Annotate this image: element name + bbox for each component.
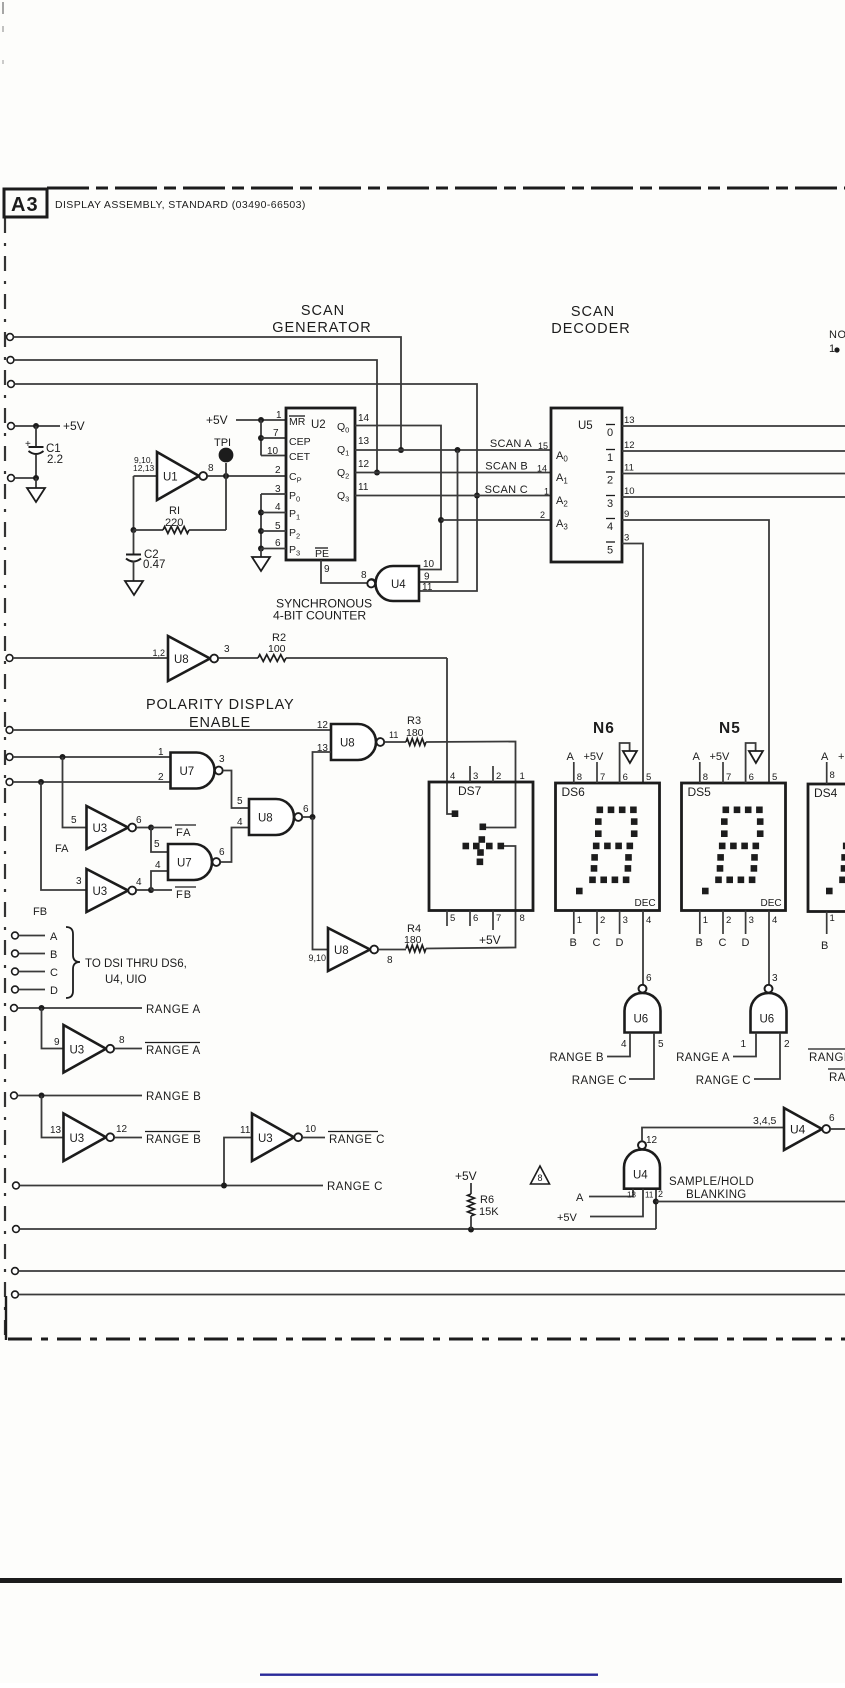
svg-text:+5V: +5V	[63, 419, 85, 433]
svg-text:4: 4	[772, 915, 777, 926]
svg-text:DS4: DS4	[814, 786, 838, 800]
svg-text:DEC: DEC	[761, 898, 782, 909]
svg-text:6: 6	[275, 538, 281, 549]
svg-text:5: 5	[607, 545, 613, 557]
svg-text:5: 5	[646, 772, 651, 783]
svg-text:1: 1	[158, 747, 164, 758]
svg-text:7: 7	[273, 428, 279, 439]
svg-text:RA: RA	[829, 1072, 845, 1084]
svg-text:2: 2	[658, 1189, 663, 1199]
svg-text:8: 8	[703, 772, 708, 783]
svg-text:8: 8	[537, 1173, 542, 1183]
svg-text:FB: FB	[33, 906, 47, 918]
svg-text:13: 13	[627, 1191, 636, 1200]
svg-text:1,2: 1,2	[152, 648, 165, 658]
svg-text:5: 5	[71, 815, 77, 826]
svg-text:GENERATOR: GENERATOR	[272, 320, 372, 336]
svg-text:3: 3	[749, 915, 754, 926]
svg-text:2: 2	[726, 915, 731, 926]
svg-text:0.47: 0.47	[143, 559, 165, 571]
svg-text:4: 4	[237, 817, 243, 828]
svg-text:13: 13	[358, 436, 370, 447]
svg-text:2.2: 2.2	[47, 454, 63, 466]
svg-text:3: 3	[772, 973, 778, 984]
svg-text:U7: U7	[180, 766, 195, 778]
svg-text:1: 1	[520, 771, 525, 782]
svg-text:9: 9	[624, 509, 629, 520]
svg-text:2: 2	[275, 465, 281, 476]
svg-text:12: 12	[358, 459, 370, 470]
svg-text:PE: PE	[315, 548, 329, 560]
svg-text:3,4,5: 3,4,5	[753, 1115, 777, 1127]
svg-text:SCAN B: SCAN B	[485, 461, 528, 473]
svg-text:SCAN: SCAN	[571, 304, 615, 320]
svg-text:ENABLE: ENABLE	[189, 715, 251, 731]
svg-text:U3: U3	[93, 823, 108, 835]
svg-text:1: 1	[577, 915, 582, 926]
svg-text:RANGE B: RANGE B	[146, 1134, 201, 1146]
svg-text:6: 6	[473, 913, 478, 924]
svg-text:180: 180	[404, 934, 422, 946]
svg-text:DISPLAY ASSEMBLY, STANDARD (03: DISPLAY ASSEMBLY, STANDARD (03490-66503)	[55, 199, 306, 211]
svg-text:+5V: +5V	[557, 1212, 578, 1224]
svg-text:14: 14	[537, 464, 547, 474]
svg-text:RANGE C: RANGE C	[329, 1134, 385, 1146]
svg-text:12: 12	[624, 440, 635, 451]
svg-text:TPI: TPI	[214, 437, 231, 449]
svg-text:13: 13	[50, 1125, 62, 1136]
svg-text:+: +	[25, 439, 31, 450]
svg-text:U3: U3	[93, 886, 108, 898]
svg-text:8: 8	[830, 770, 835, 781]
svg-text:SAMPLE/HOLD: SAMPLE/HOLD	[669, 1176, 754, 1188]
svg-text:RANGE A: RANGE A	[676, 1052, 730, 1064]
svg-text:RANGE: RANGE	[809, 1052, 845, 1064]
svg-text:1: 1	[276, 410, 282, 421]
svg-text:8: 8	[208, 463, 214, 474]
svg-text:6: 6	[646, 973, 652, 984]
svg-text:2: 2	[784, 1039, 790, 1050]
svg-text:8: 8	[387, 955, 393, 966]
svg-text:1: 1	[544, 487, 549, 497]
svg-text:12,13: 12,13	[133, 463, 155, 473]
svg-text:U4: U4	[633, 1170, 648, 1182]
svg-text:+5V: +5V	[584, 751, 605, 763]
svg-text:N6: N6	[593, 720, 615, 737]
svg-text:RANGE A: RANGE A	[146, 1045, 201, 1057]
svg-text:6: 6	[219, 847, 225, 858]
svg-text:11: 11	[358, 482, 369, 493]
svg-text:1: 1	[740, 1039, 746, 1050]
svg-text:U6: U6	[634, 1014, 649, 1026]
svg-text:12: 12	[116, 1124, 128, 1135]
svg-text:4: 4	[621, 1039, 627, 1050]
svg-text:6: 6	[749, 772, 754, 783]
svg-text:11: 11	[389, 730, 398, 740]
svg-text:RI: RI	[169, 505, 180, 517]
svg-text:11: 11	[422, 582, 433, 593]
svg-text:14: 14	[358, 413, 370, 424]
svg-text:3: 3	[219, 754, 225, 765]
svg-text:+: +	[838, 751, 844, 763]
svg-text:R6: R6	[480, 1194, 494, 1206]
svg-text:RANGE C: RANGE C	[327, 1181, 383, 1193]
svg-text:POLARITY DISPLAY: POLARITY DISPLAY	[146, 697, 294, 713]
svg-text:MR: MR	[289, 416, 306, 428]
svg-text:C: C	[593, 937, 601, 949]
svg-text:6: 6	[829, 1113, 835, 1124]
svg-text:FA: FA	[176, 827, 191, 839]
svg-text:5: 5	[450, 913, 455, 924]
svg-text:CET: CET	[289, 451, 311, 463]
svg-text:B: B	[821, 940, 828, 952]
svg-text:1: 1	[830, 913, 835, 924]
svg-text:A: A	[567, 751, 575, 763]
svg-text:3: 3	[76, 876, 82, 887]
svg-text:13: 13	[624, 415, 635, 426]
svg-text:11: 11	[624, 463, 634, 474]
svg-text:3: 3	[623, 915, 628, 926]
svg-text:1: 1	[703, 915, 708, 926]
svg-text:RANGE B: RANGE B	[146, 1091, 201, 1103]
svg-text:R3: R3	[407, 715, 421, 727]
svg-text:SCAN A: SCAN A	[490, 438, 533, 450]
svg-text:D: D	[742, 937, 750, 949]
svg-text:U8: U8	[340, 738, 355, 750]
svg-text:BLANKING: BLANKING	[686, 1189, 747, 1201]
svg-text:U3: U3	[258, 1133, 273, 1145]
svg-text:SCAN C: SCAN C	[485, 484, 528, 496]
svg-text:A: A	[50, 931, 58, 943]
svg-text:+5V: +5V	[455, 1169, 477, 1183]
svg-text:RANGE C: RANGE C	[572, 1075, 627, 1087]
svg-text:12: 12	[317, 720, 329, 731]
svg-text:D: D	[616, 937, 624, 949]
svg-text:0: 0	[607, 427, 613, 439]
svg-text:A: A	[821, 751, 829, 763]
svg-text:5: 5	[772, 772, 777, 783]
svg-text:8: 8	[361, 570, 367, 581]
svg-text:RANGE A: RANGE A	[146, 1004, 201, 1016]
svg-text:U2: U2	[311, 419, 326, 431]
svg-text:D: D	[50, 985, 58, 997]
svg-text:U7: U7	[177, 858, 192, 870]
svg-text:U1: U1	[163, 472, 178, 484]
svg-text:10: 10	[305, 1124, 317, 1135]
svg-text:U4: U4	[790, 1123, 806, 1137]
svg-text:RANGE C: RANGE C	[696, 1075, 751, 1087]
svg-text:DS7: DS7	[458, 784, 482, 798]
svg-text:7: 7	[600, 772, 605, 783]
svg-text:4: 4	[275, 502, 281, 513]
svg-text:A3: A3	[11, 194, 39, 216]
svg-text:7: 7	[726, 772, 731, 783]
svg-text:NOT: NOT	[829, 329, 845, 341]
svg-text:DECODER: DECODER	[551, 321, 631, 337]
svg-text:+5V: +5V	[479, 933, 501, 947]
svg-text:3: 3	[607, 498, 613, 510]
svg-text:2: 2	[496, 771, 501, 782]
svg-text:U4: U4	[391, 579, 406, 591]
svg-text:220: 220	[165, 517, 183, 529]
svg-text:8: 8	[520, 913, 525, 924]
svg-text:U6: U6	[760, 1014, 775, 1026]
svg-text:2: 2	[607, 475, 613, 487]
svg-text:U8: U8	[334, 945, 349, 957]
svg-text:3: 3	[224, 644, 230, 655]
svg-text:11: 11	[240, 1125, 251, 1136]
svg-text:3: 3	[473, 771, 478, 782]
svg-text:12: 12	[646, 1135, 658, 1146]
svg-text:10: 10	[624, 486, 635, 497]
svg-text:C: C	[719, 937, 727, 949]
svg-text:3: 3	[624, 533, 629, 544]
svg-text:9: 9	[54, 1037, 60, 1048]
svg-text:FB: FB	[176, 889, 192, 901]
svg-text:SCAN: SCAN	[301, 303, 345, 319]
svg-text:15K: 15K	[479, 1206, 499, 1218]
svg-text:4: 4	[155, 860, 161, 871]
svg-text:DEC: DEC	[635, 898, 656, 909]
svg-text:U8: U8	[174, 654, 189, 666]
svg-text:9: 9	[324, 564, 330, 575]
svg-text:A: A	[576, 1192, 584, 1204]
svg-text:B: B	[50, 949, 57, 961]
svg-text:U5: U5	[578, 420, 593, 432]
svg-text:4-BIT COUNTER: 4-BIT COUNTER	[273, 609, 366, 623]
svg-text:N5: N5	[719, 720, 741, 737]
svg-text:5: 5	[154, 839, 160, 850]
svg-text:15: 15	[538, 441, 548, 451]
svg-text:10: 10	[267, 446, 279, 457]
svg-text:100: 100	[268, 643, 286, 655]
svg-text:5: 5	[237, 796, 243, 807]
svg-text:1: 1	[607, 452, 613, 464]
svg-text:+5V: +5V	[206, 413, 228, 427]
svg-text:9,10: 9,10	[308, 953, 326, 963]
svg-text:180: 180	[406, 727, 424, 739]
svg-text:6: 6	[136, 815, 142, 826]
svg-text:11: 11	[645, 1191, 654, 1200]
svg-text:4: 4	[607, 521, 613, 533]
svg-text:A: A	[693, 751, 701, 763]
svg-text:+5V: +5V	[710, 751, 731, 763]
svg-text:7: 7	[496, 913, 501, 924]
svg-text:2: 2	[600, 915, 605, 926]
svg-text:DS6: DS6	[562, 785, 586, 799]
svg-text:4: 4	[136, 877, 142, 888]
svg-text:6: 6	[623, 772, 628, 783]
svg-text:U3: U3	[70, 1044, 85, 1056]
svg-text:10: 10	[423, 559, 435, 570]
svg-text:8: 8	[119, 1035, 125, 1046]
svg-text:CEP: CEP	[289, 436, 311, 448]
svg-text:4: 4	[646, 915, 651, 926]
svg-text:B: B	[570, 937, 577, 949]
svg-text:U3: U3	[70, 1133, 85, 1145]
svg-text:FA: FA	[55, 843, 69, 855]
svg-text:5: 5	[658, 1039, 664, 1050]
svg-text:8: 8	[577, 772, 582, 783]
svg-text:DS5: DS5	[688, 785, 712, 799]
svg-text:2: 2	[540, 510, 545, 520]
svg-text:C: C	[50, 967, 58, 979]
svg-text:B: B	[696, 937, 703, 949]
svg-text:TO DSI THRU DS6,: TO DSI THRU DS6,	[85, 958, 187, 970]
svg-text:6: 6	[303, 804, 309, 815]
svg-text:U4, UIO: U4, UIO	[105, 974, 147, 986]
svg-text:RANGE B: RANGE B	[549, 1052, 604, 1064]
svg-text:2: 2	[158, 772, 164, 783]
svg-text:U8: U8	[258, 813, 273, 825]
svg-text:9: 9	[424, 572, 430, 583]
svg-text:4: 4	[450, 771, 455, 782]
